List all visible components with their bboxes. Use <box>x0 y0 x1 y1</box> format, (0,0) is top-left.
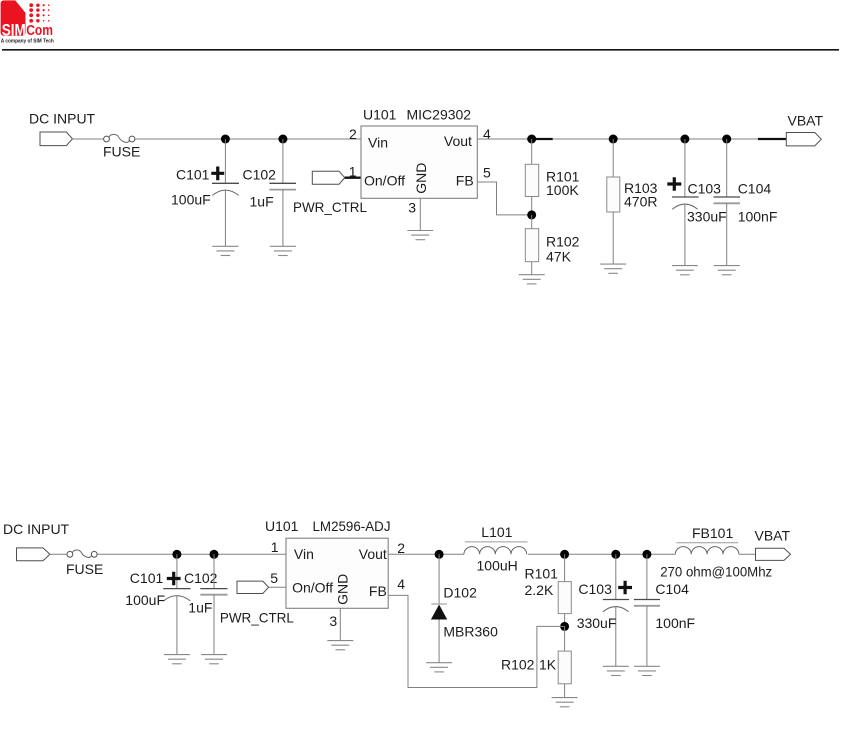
SIMCom logo card <box>1 0 26 35</box>
label C102 bottom <box>184 570 218 586</box>
svg-text:Vin: Vin <box>294 546 314 562</box>
label C104 bottom <box>655 581 689 597</box>
label 330uF <box>687 209 727 225</box>
node junction at C101 bottom <box>172 550 181 559</box>
pin label Vout <box>444 133 472 149</box>
label U101 bottom <box>265 518 299 534</box>
resistor R103 <box>607 139 620 264</box>
svg-text:R101: R101 <box>525 565 559 581</box>
ground below U101 <box>407 231 433 240</box>
wire Vout rail to VBAT <box>477 138 786 140</box>
ground below C104 bottom <box>634 666 660 675</box>
label D102 <box>443 585 477 601</box>
svg-text:Vout: Vout <box>359 546 387 562</box>
svg-text:Vout: Vout <box>444 133 472 149</box>
wire Vout rail bottom <box>388 553 464 555</box>
svg-text:C103: C103 <box>688 180 722 196</box>
svg-text:270 ohm@100Mhz: 270 ohm@100Mhz <box>660 563 772 579</box>
ground below C101 <box>212 246 238 255</box>
capacitor C103 bottom <box>603 554 629 666</box>
connector VBAT flag bottom <box>756 548 791 560</box>
svg-text:L101: L101 <box>481 524 512 540</box>
pin 2 bottom <box>397 540 405 556</box>
header rule <box>2 49 839 51</box>
svg-text:MIC29302: MIC29302 <box>407 106 472 122</box>
pin 4 bottom <box>397 576 405 592</box>
connector PWR_CTRL flag bottom <box>237 581 269 593</box>
pin label Vout bottom <box>359 546 387 562</box>
connector VBAT flag <box>786 133 821 146</box>
svg-text:100K: 100K <box>546 182 579 198</box>
op-amp U101 regulator box <box>361 126 477 198</box>
node junction at C104 bottom <box>642 550 651 559</box>
label U101 <box>363 106 397 122</box>
label LM2596-ADJ <box>313 518 391 534</box>
label FUSE <box>103 144 140 160</box>
ground below C104 <box>714 266 740 275</box>
label 270 ohm@100Mhz <box>660 563 772 579</box>
label L101 <box>481 524 512 540</box>
label FB101 <box>692 525 733 541</box>
SIMCom logo tagline <box>1 39 54 45</box>
label 100uF bottom <box>125 592 165 608</box>
pin label Vin <box>368 134 388 150</box>
pin 1 bottom <box>271 539 279 555</box>
svg-text:100uF: 100uF <box>171 192 211 208</box>
op-amp U101 regulator box bottom <box>286 538 388 608</box>
label FUSE bottom <box>66 561 103 577</box>
node junction R101/R102 bottom <box>560 622 569 631</box>
svg-text:DC INPUT: DC INPUT <box>29 111 96 127</box>
svg-text:DC INPUT: DC INPUT <box>3 521 70 537</box>
svg-text:4: 4 <box>397 576 405 592</box>
pin label FB bottom <box>369 583 387 599</box>
svg-text:GND: GND <box>334 574 350 605</box>
ground below R102 <box>519 275 545 284</box>
pin label On/Off bottom <box>292 579 333 595</box>
pin label FB <box>456 172 474 188</box>
label C101 bottom <box>130 570 164 586</box>
label MIC29302 <box>407 106 472 122</box>
ground below C103 bottom <box>603 666 629 675</box>
wire fuse to U101 Vin bottom <box>97 553 286 555</box>
svg-text:47K: 47K <box>546 249 572 265</box>
resistor R101 <box>525 139 538 215</box>
node junction at R101 bottom <box>560 550 569 559</box>
svg-text:C104: C104 <box>655 581 689 597</box>
svg-text:FUSE: FUSE <box>103 144 140 160</box>
connector DC INPUT flag <box>40 132 72 146</box>
polarity plus C103 <box>667 177 681 191</box>
svg-text:5: 5 <box>270 570 278 586</box>
wire flag to fuse bottom <box>50 553 67 555</box>
connector PWR_CTRL flag <box>312 171 345 184</box>
label R103 <box>624 180 658 196</box>
svg-text:100uF: 100uF <box>125 592 165 608</box>
capacitor C104 <box>714 139 741 266</box>
pin 5 bottom <box>270 570 278 586</box>
pin label GND rotated <box>413 163 429 194</box>
node junction at R103 <box>609 135 618 144</box>
node junction at C102 <box>278 135 287 144</box>
node junction at C103 <box>680 135 689 144</box>
pin label GND rotated bottom <box>334 574 350 605</box>
label C104 <box>738 180 772 196</box>
label R101 <box>546 168 580 184</box>
pin 3 <box>408 200 416 216</box>
svg-text:R102: R102 <box>501 656 535 672</box>
svg-text:1K: 1K <box>539 656 557 672</box>
wire FB pin to divider <box>477 182 531 215</box>
label 100nF <box>738 209 778 225</box>
label 1uF bottom <box>188 599 212 615</box>
fuse bottom <box>67 550 97 558</box>
svg-text:LM2596-ADJ: LM2596-ADJ <box>313 518 391 534</box>
diode D102 <box>431 554 447 662</box>
wire thick segment after R101 node <box>536 138 553 140</box>
svg-text:On/Off: On/Off <box>292 579 333 595</box>
pin label On/Off <box>364 172 405 188</box>
node junction at C101 <box>221 135 230 144</box>
svg-text:2.2K: 2.2K <box>525 582 554 598</box>
wire thick segment before VBAT <box>758 138 786 140</box>
label 330uF bottom <box>577 615 617 631</box>
SIMCom logo SIM text <box>2 21 26 39</box>
polarity plus C103 bottom <box>618 581 632 595</box>
svg-text:330uF: 330uF <box>687 209 727 225</box>
pin 2 <box>349 126 357 142</box>
label R101 bottom <box>525 565 559 581</box>
label PWR_CTRL bottom <box>220 610 294 626</box>
wire U101 GND pin 3 <box>419 198 421 230</box>
capacitor C104 bottom <box>634 554 660 666</box>
capacitor C101 <box>212 139 239 246</box>
label C101 <box>176 167 210 183</box>
label DC INPUT <box>29 111 96 127</box>
resistor R102 bottom <box>558 626 571 697</box>
label C103 <box>688 180 722 196</box>
svg-text:2: 2 <box>349 126 357 142</box>
SIMCom logo dots <box>29 3 49 22</box>
wire L101 to FB101 <box>528 553 675 555</box>
connector DC INPUT flag bottom <box>17 548 50 561</box>
svg-text:R102: R102 <box>546 233 580 249</box>
svg-text:C102: C102 <box>243 167 277 183</box>
SIMCom logo Com text <box>26 23 53 39</box>
wire U101 GND pin bottom <box>339 608 341 640</box>
svg-text:C102: C102 <box>184 570 218 586</box>
svg-text:PWR_CTRL: PWR_CTRL <box>220 610 294 626</box>
svg-text:470R: 470R <box>624 193 657 209</box>
label C103 bottom <box>578 581 612 597</box>
fuse F101 <box>104 134 135 142</box>
pin 3 bottom <box>329 613 337 629</box>
label 100uF <box>171 192 211 208</box>
label MBR360 <box>443 623 498 639</box>
svg-text:D102: D102 <box>443 585 477 601</box>
label 2.2K <box>525 582 554 598</box>
node junction at C103 bottom <box>611 550 620 559</box>
label R102 <box>546 233 580 249</box>
svg-text:5: 5 <box>483 164 491 180</box>
ground below R102 bottom <box>552 698 578 707</box>
pin 4 <box>483 126 491 142</box>
label C102 <box>243 167 277 183</box>
label 100K <box>546 182 579 198</box>
node junction at D102 <box>435 550 444 559</box>
polarity plus C101 <box>211 167 224 181</box>
pin 5 <box>483 164 491 180</box>
svg-text:C103: C103 <box>578 581 612 597</box>
inductor L101 <box>464 542 528 554</box>
svg-text:100nF: 100nF <box>655 615 695 631</box>
pin 1 <box>349 163 357 179</box>
svg-text:SIM: SIM <box>2 21 26 39</box>
label VBAT top <box>788 113 824 129</box>
wire FB101 to VBAT bottom <box>739 553 756 555</box>
ferrite bead FB101 <box>675 543 739 555</box>
svg-text:3: 3 <box>408 200 416 216</box>
label R102 bottom <box>501 656 535 672</box>
node junction R101/R102 <box>527 210 536 219</box>
label 470R <box>624 193 657 209</box>
svg-text:FUSE: FUSE <box>66 561 103 577</box>
svg-text:U101: U101 <box>265 518 299 534</box>
label VBAT bottom <box>755 527 791 543</box>
svg-text:C101: C101 <box>176 167 210 183</box>
label 1uF <box>250 194 274 210</box>
pin label Vin bottom <box>294 546 314 562</box>
label 47K <box>546 249 572 265</box>
svg-text:VBAT: VBAT <box>755 527 791 543</box>
capacitor C103 <box>672 139 699 266</box>
svg-text:1: 1 <box>271 539 279 555</box>
svg-text:MBR360: MBR360 <box>443 623 498 639</box>
node junction at C104 <box>722 135 731 144</box>
node junction at R101 <box>527 135 536 144</box>
svg-text:GND: GND <box>413 163 429 194</box>
svg-text:100nF: 100nF <box>738 209 778 225</box>
ground below C101 bottom <box>164 655 190 664</box>
svg-text:VBAT: VBAT <box>788 113 824 129</box>
capacitor C102 bottom <box>200 554 227 654</box>
svg-text:Com: Com <box>26 23 53 39</box>
svg-text:FB: FB <box>456 172 474 188</box>
ground below U101 bottom <box>327 641 353 650</box>
wire flag to fuse <box>72 138 103 140</box>
svg-text:1uF: 1uF <box>250 194 274 210</box>
ground below C102 <box>270 246 296 255</box>
wire fuse to U101 Vin <box>135 138 361 140</box>
svg-text:On/Off: On/Off <box>364 172 405 188</box>
svg-text:1uF: 1uF <box>188 599 212 615</box>
ground below C103 <box>672 266 698 275</box>
polarity plus C101 bottom <box>167 572 181 586</box>
node junction at C102 bottom <box>210 550 219 559</box>
wire FB feedback path bottom <box>388 595 564 687</box>
wire PWR_CTRL to On/Off bottom <box>269 586 286 588</box>
svg-text:100uH: 100uH <box>477 558 518 574</box>
svg-text:2: 2 <box>397 540 405 556</box>
svg-text:C104: C104 <box>738 180 772 196</box>
svg-text:FB101: FB101 <box>692 525 733 541</box>
wire PWR_CTRL to On/Off pin 1 <box>345 177 362 179</box>
svg-text:A company of SIM Tech: A company of SIM Tech <box>1 39 54 45</box>
ground below R103 <box>600 264 626 273</box>
svg-text:U101: U101 <box>363 106 397 122</box>
capacitor C101 bottom <box>163 554 190 654</box>
ground below C102 bottom <box>201 655 227 664</box>
capacitor C102 <box>269 139 296 246</box>
label PWR_CTRL <box>293 199 367 215</box>
label DC INPUT bottom <box>3 521 70 537</box>
svg-text:1: 1 <box>349 163 357 179</box>
svg-text:3: 3 <box>329 613 337 629</box>
label 100nF bottom <box>655 615 695 631</box>
svg-text:C101: C101 <box>130 570 164 586</box>
resistor R102 <box>525 215 538 275</box>
svg-text:FB: FB <box>369 583 387 599</box>
ground below D102 <box>426 663 452 672</box>
svg-text:PWR_CTRL: PWR_CTRL <box>293 199 367 215</box>
svg-text:330uF: 330uF <box>577 615 617 631</box>
label 1K <box>539 656 557 672</box>
resistor R101 bottom <box>558 554 571 626</box>
label 100uH <box>477 558 518 574</box>
svg-text:Vin: Vin <box>368 134 388 150</box>
